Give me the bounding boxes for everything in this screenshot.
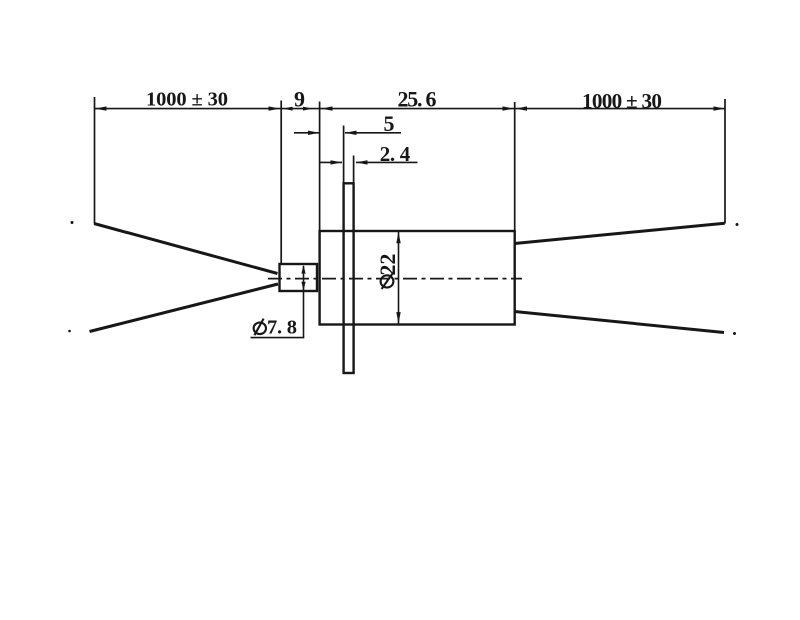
arrowhead 9 left (points left) (283, 107, 293, 111)
φ7.8 label underline (251, 337, 305, 339)
wire bottom-left (90, 284, 279, 332)
φ22 vertical dimension line with arrows both ends (398, 232, 400, 324)
mounting flange plate (thin vertical rectangle) (344, 183, 354, 373)
centre line (dash-dot) (268, 278, 522, 280)
dimension text φ22 (rotated 90° ccw, reads upward) (375, 254, 400, 276)
φ7.8 leader vertical line from block bottom to label (303, 292, 305, 338)
dimension 2.4: left segment with right-pointing arrow at flange-left (320, 161, 342, 163)
dimension 5: left segment with right-pointing arrow at body-left edge (294, 132, 320, 134)
arrowhead 9 right (points right) (303, 107, 313, 111)
flange left edge extension line (up to 5-dim) (343, 126, 345, 184)
extension line body-left edge (9 right / 25.6 left / 5 left) (319, 102, 321, 232)
ink dot left lower (68, 330, 71, 333)
extension line at connector block left (9 left) (280, 101, 282, 264)
wire top-right (515, 223, 725, 243)
extension line body-right edge (25.6 right / right 1000 left) (514, 102, 516, 231)
dimension 2.4: right segment with left-pointing arrow at flange-right (356, 161, 418, 163)
arrowhead 25.6 right (503, 106, 515, 110)
arrowhead left 1000±30 right tip (269, 106, 281, 110)
arrowhead 25.6 left (321, 106, 333, 110)
ink dot right lower (733, 332, 736, 335)
arrowhead right 1000±30 right tip (714, 106, 726, 110)
ink dot right upper (736, 223, 739, 226)
flange right edge extension line (up to 2.4-dim) (353, 156, 355, 184)
svg-text:5: 5 (384, 111, 395, 136)
svg-text:9: 9 (294, 86, 305, 111)
wire bottom-right (515, 312, 725, 333)
svg-text:7. 8: 7. 8 (267, 316, 297, 338)
wire top-left (94, 224, 278, 274)
φ symbol of φ22 (circle with slash, below the 22) (381, 275, 394, 287)
arrowhead right 1000±30 left tip (516, 106, 528, 110)
extension line left end of left 1000±30 (94, 97, 96, 224)
connector block (φ7.8 stub) rectangle (280, 264, 318, 291)
svg-text:25. 6: 25. 6 (398, 87, 437, 112)
dimension 5: right segment with left-pointing arrow at flange-left (345, 132, 401, 134)
cylinder body rectangle (320, 231, 515, 325)
svg-text:22: 22 (375, 254, 400, 276)
φ7.8 small double arrow inside block (303, 266, 305, 290)
ink dot left upper (71, 221, 74, 224)
svg-text:1000 ± 30: 1000 ± 30 (146, 89, 228, 111)
φ symbol of φ7.8 (circle with slash) (254, 323, 266, 335)
svg-text:2. 4: 2. 4 (380, 142, 411, 166)
arrowhead left 1000±30 left tip (95, 106, 107, 110)
extension line right end of right 1000±30 (724, 99, 726, 224)
svg-text:1000 ± 30: 1000 ± 30 (582, 89, 662, 113)
main dimension line y=108.6 spanning all four dimensions (95, 108, 726, 110)
